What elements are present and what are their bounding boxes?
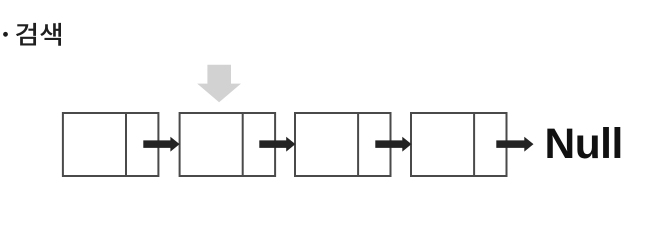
- arrow node1 to node2: [143, 137, 179, 152]
- node 1 divider: [125, 112, 127, 176]
- node 1 box: [63, 113, 158, 176]
- bullet: [3, 32, 8, 37]
- gray down arrow: [197, 65, 241, 103]
- arrow node4 to Null: [496, 137, 533, 152]
- label "검색": [16, 23, 61, 46]
- arrow node3 to node4: [375, 137, 411, 152]
- node 3 box: [295, 113, 391, 176]
- node 2 divider: [242, 112, 244, 176]
- svg-text:Null: Null: [545, 121, 623, 168]
- arrow node2 to node3: [259, 137, 295, 152]
- node 4 box: [411, 113, 507, 176]
- node 2 box: [180, 113, 276, 176]
- node 3 divider: [357, 112, 359, 176]
- node 4 divider: [473, 112, 475, 176]
